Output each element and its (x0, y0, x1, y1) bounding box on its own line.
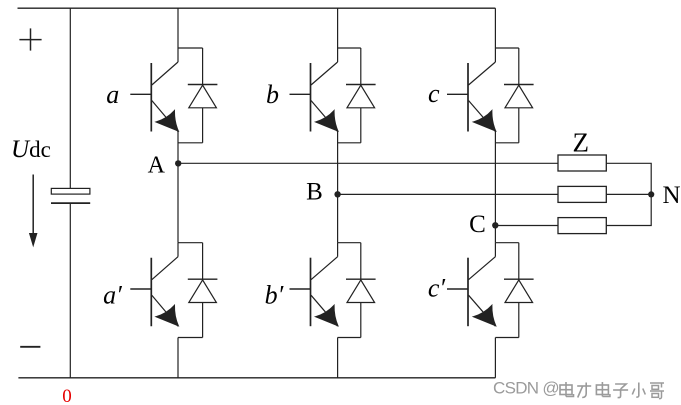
svg-text:A: A (148, 152, 166, 178)
diode Dc (upper freewheeling) (518, 48, 520, 85)
arrow: Udc reference direction (32, 175, 34, 235)
svg-text:0: 0 (62, 386, 72, 405)
svg-text:b′: b′ (265, 281, 284, 310)
wire: leg c lower branch to diode (495, 242, 518, 244)
watermark: CJK glyph 哥 (650, 383, 664, 399)
wire: leg b midpoint vertical (337, 132, 339, 243)
watermark: CJK glyph 电 (560, 382, 574, 397)
wire: leg b lower branch to diode (338, 242, 361, 244)
wire: leg c lower bottom tie (495, 337, 518, 339)
wire: phase B load to N (606, 193, 651, 195)
wire: leg b upper bottom tie (338, 142, 361, 144)
transistor c' (lower IGBT) (494, 243, 496, 257)
wire: leg c from top rail (494, 8, 496, 48)
diode Dc' (lower freewheeling) (518, 243, 520, 280)
wire: phase C load to N (606, 194, 651, 225)
node B (junction dot) (334, 191, 340, 197)
wire: leg a upper branch to diode (178, 47, 203, 49)
node A (junction dot) (175, 160, 181, 166)
resistor Z (phase B load) (558, 186, 606, 202)
svg-text:a: a (106, 80, 119, 109)
watermark: CJK glyph 子 (613, 384, 628, 398)
node C (junction dot) (492, 222, 498, 228)
resistor Z (phase A load) (558, 155, 606, 171)
transistor a (upper IGBT) (177, 48, 179, 62)
transistor c (upper IGBT) (494, 48, 496, 62)
svg-text:c: c (428, 79, 440, 108)
wire: positive DC bus (top rail) (18, 7, 496, 9)
diode Da (upper freewheeling) (202, 48, 204, 85)
wire: DC-link left bus upper segment (69, 8, 71, 188)
capacitor C1 (DC-link), bottom plate (51, 202, 90, 204)
wire: leg a upper bottom tie (178, 142, 203, 144)
svg-text:B: B (306, 179, 323, 206)
svg-text:N: N (662, 182, 680, 209)
wire: leg c midpoint vertical (494, 132, 496, 243)
diode Da' (lower freewheeling) (202, 243, 204, 280)
wire: negative DC bus (bottom rail) (18, 377, 495, 379)
watermark: CJK glyph 电 (596, 382, 610, 397)
diode Db' (lower freewheeling) (360, 243, 362, 280)
label - (DC negative) (20, 346, 40, 348)
watermark: CJK glyph 小 (632, 383, 645, 398)
capacitor C1 (DC-link), top plate (51, 188, 90, 194)
transistor a' (lower IGBT) (177, 243, 179, 257)
wire: leg b lower bottom tie (338, 337, 361, 339)
wire: leg b to bottom rail (337, 338, 339, 378)
svg-text:b: b (266, 80, 279, 109)
node N (neutral junction dot) (648, 191, 654, 197)
transistor b' (lower IGBT) (337, 243, 339, 257)
svg-text:CSDN @: CSDN @ (493, 379, 559, 398)
wire: DC-link left bus lower segment (69, 203, 71, 378)
resistor Z (phase C load) (558, 218, 606, 234)
wire: phase A output line (178, 162, 558, 164)
diode Db (upper freewheeling) (360, 48, 362, 85)
watermark: CJK glyph 力 (577, 383, 591, 398)
svg-text:a′: a′ (103, 281, 122, 310)
wire: leg c upper branch to diode (495, 47, 518, 49)
svg-text:c′: c′ (428, 274, 446, 303)
wire: leg c to bottom rail (494, 338, 496, 378)
svg-text:Udc: Udc (11, 136, 51, 163)
wire: leg a from top rail (177, 8, 179, 48)
svg-text:C: C (469, 211, 486, 238)
wire: leg a lower bottom tie (178, 337, 203, 339)
transistor b (upper IGBT) (337, 48, 339, 62)
label + (DC positive) (19, 39, 41, 41)
wire: leg c upper bottom tie (495, 142, 518, 144)
wire: leg b upper branch to diode (338, 47, 361, 49)
wire: leg a lower branch to diode (178, 242, 203, 244)
wire: phase C output line (495, 225, 558, 227)
wire: leg a midpoint vertical (177, 132, 179, 243)
svg-text:Z: Z (573, 127, 590, 157)
wire: leg a to bottom rail (177, 338, 179, 378)
wire: leg b from top rail (337, 8, 339, 48)
wire: phase A load to N (606, 163, 651, 194)
wire: phase B output line (338, 193, 558, 195)
